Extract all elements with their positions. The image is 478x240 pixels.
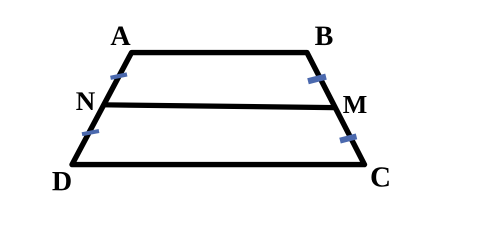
tick mark on BM bbox=[308, 77, 326, 82]
tick mark on AN bbox=[111, 74, 128, 77]
point label M bbox=[343, 96, 366, 113]
vertex label C bbox=[371, 167, 388, 186]
tick mark on MC bbox=[340, 136, 357, 140]
vertex label A bbox=[111, 27, 131, 45]
vertex label B bbox=[315, 27, 332, 45]
tick mark on ND bbox=[82, 131, 99, 134]
point label N bbox=[76, 92, 95, 110]
midsegment NM bbox=[103, 105, 334, 108]
trapezoid ABCD outline bbox=[72, 53, 365, 165]
vertex label D bbox=[52, 172, 70, 190]
